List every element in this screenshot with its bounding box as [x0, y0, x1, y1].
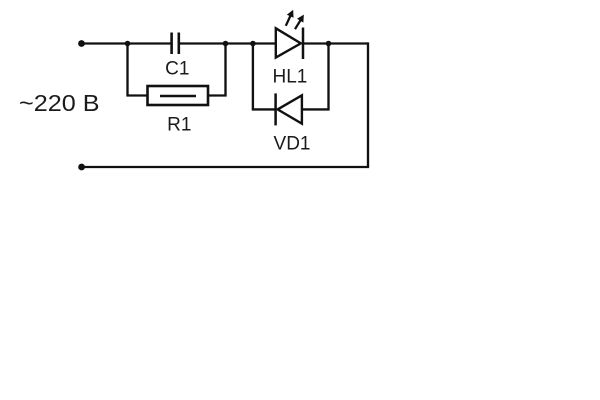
wire: R1 branch left horizontal lead — [126, 94, 147, 96]
diode VD1 triangle (pointing left) — [278, 95, 302, 123]
node junction J3 (HL1/VD1 left) — [250, 41, 256, 47]
wire: VD1 branch right vertical — [327, 44, 329, 110]
node junction J1 (C1/R1 left) — [125, 41, 131, 47]
diode VD1 cathode bar — [274, 93, 277, 125]
wire top: terminal to capacitor left plate — [82, 42, 171, 44]
node junction J4 (HL1/VD1 right) — [326, 41, 332, 47]
svg-text:~220 В: ~220 В — [19, 90, 100, 116]
terminal (bottom input) — [78, 164, 85, 171]
wire top: LED cathode to top-right corner — [303, 42, 368, 44]
label R1 — [167, 115, 191, 136]
wire: R1 branch right vertical — [224, 44, 226, 96]
label VD1 — [274, 134, 311, 155]
wire: right side vertical down — [367, 42, 369, 167]
resistor R1 — [148, 86, 209, 105]
wire: R1 branch left vertical — [126, 44, 128, 96]
svg-text:VD1: VD1 — [274, 134, 311, 155]
label ~220 V mains source — [19, 90, 100, 116]
terminal (top input) — [78, 40, 85, 47]
capacitor C1 — [172, 33, 179, 55]
LED HL1 diode triangle — [276, 28, 301, 57]
label HL1 — [272, 67, 307, 88]
wire: R1 branch right horizontal lead — [208, 94, 227, 96]
wire bottom: right corner to bottom terminal — [82, 166, 370, 168]
svg-text:HL1: HL1 — [272, 67, 307, 88]
LED HL1 cathode bar — [302, 28, 305, 60]
wire: VD1 branch left vertical — [252, 44, 254, 110]
svg-text:R1: R1 — [167, 115, 191, 136]
node junction J2 (C1/R1 right) — [223, 41, 229, 47]
LED HL1 emission arrow 1 — [286, 11, 293, 26]
wire: VD1 branch right horizontal lead — [302, 108, 330, 110]
wire top: capacitor right plate to LED anode — [180, 42, 276, 44]
wire: VD1 branch left horizontal lead — [252, 108, 276, 110]
svg-text:C1: C1 — [165, 59, 189, 80]
label C1 — [165, 59, 189, 80]
LED HL1 emission arrow 2 — [295, 15, 303, 29]
